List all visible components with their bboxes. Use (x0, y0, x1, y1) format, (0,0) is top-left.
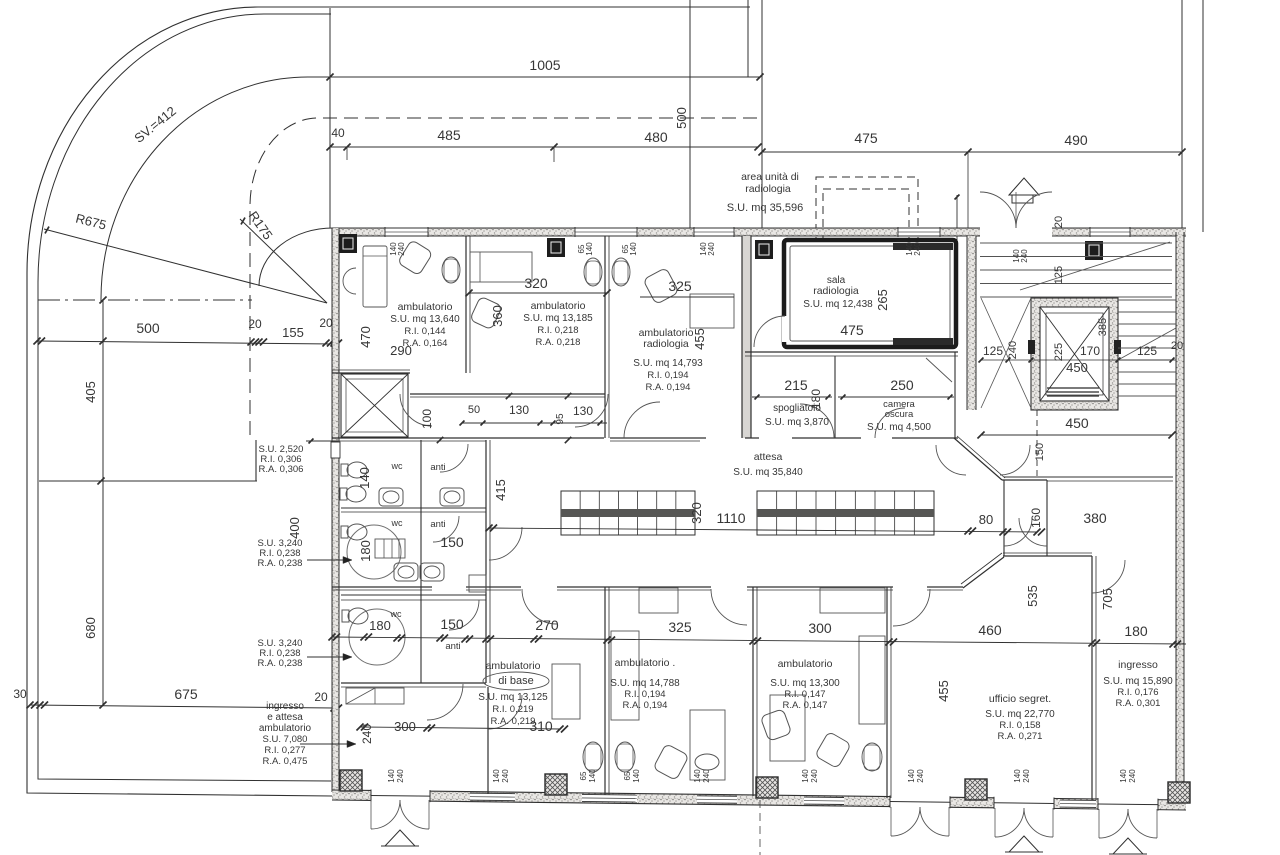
svg-text:65: 65 (623, 771, 632, 780)
svg-text:S.U. mq 14,788: S.U. mq 14,788 (610, 678, 680, 689)
svg-text:spogliatoio: spogliatoio (773, 403, 821, 414)
svg-text:125: 125 (1137, 344, 1157, 358)
svg-text:ambulatorio .: ambulatorio . (615, 657, 676, 669)
svg-text:R.A. 0,475: R.A. 0,475 (263, 756, 308, 767)
svg-text:R.A. 0,271: R.A. 0,271 (998, 731, 1043, 742)
svg-text:R.A. 0,238: R.A. 0,238 (258, 658, 303, 669)
svg-text:455: 455 (692, 328, 707, 350)
svg-text:S.U. mq 35,596: S.U. mq 35,596 (727, 202, 803, 214)
svg-text:S.U. mq 13,640: S.U. mq 13,640 (390, 314, 460, 325)
svg-text:R.A. 0,306: R.A. 0,306 (259, 464, 304, 475)
svg-text:240: 240 (1007, 341, 1019, 359)
svg-text:ambulatorio: ambulatorio (398, 301, 453, 313)
svg-text:475: 475 (840, 322, 864, 338)
svg-text:180: 180 (1124, 623, 1148, 639)
svg-text:ingresso: ingresso (1118, 659, 1158, 671)
svg-text:300: 300 (394, 719, 416, 734)
svg-text:485: 485 (437, 127, 461, 143)
svg-text:S.U. mq 3,870: S.U. mq 3,870 (765, 417, 829, 428)
svg-text:240: 240 (360, 724, 374, 744)
svg-text:R.A. 0,147: R.A. 0,147 (783, 700, 828, 711)
svg-text:S.U. mq 14,793: S.U. mq 14,793 (633, 358, 703, 369)
svg-text:125: 125 (983, 344, 1003, 358)
svg-text:S.U. 7,080: S.U. 7,080 (263, 734, 308, 745)
svg-text:di base: di base (498, 675, 533, 687)
svg-text:20: 20 (1171, 340, 1183, 352)
svg-text:240: 240 (1128, 769, 1137, 783)
svg-text:320: 320 (689, 502, 704, 524)
svg-text:R.I. 0,218: R.I. 0,218 (537, 325, 578, 336)
svg-text:e attesa: e attesa (267, 712, 303, 723)
svg-text:R.A. 0,194: R.A. 0,194 (646, 382, 691, 393)
svg-text:ambulatorio: ambulatorio (778, 658, 833, 670)
svg-text:160: 160 (1029, 508, 1043, 528)
svg-text:400: 400 (287, 517, 302, 539)
svg-text:140: 140 (357, 467, 372, 489)
svg-text:ingresso: ingresso (266, 701, 304, 712)
svg-text:wc: wc (391, 461, 403, 471)
svg-text:180: 180 (369, 618, 391, 633)
svg-text:150: 150 (440, 534, 464, 550)
svg-text:S.U. mq 4,500: S.U. mq 4,500 (867, 422, 931, 433)
svg-text:150: 150 (440, 616, 464, 632)
svg-text:405: 405 (83, 381, 98, 403)
svg-text:270: 270 (535, 617, 559, 633)
svg-text:anti: anti (430, 462, 445, 473)
svg-text:ufficio segret.: ufficio segret. (989, 693, 1051, 705)
svg-text:455: 455 (936, 680, 951, 702)
svg-text:240: 240 (707, 242, 716, 256)
svg-text:325: 325 (668, 278, 692, 294)
svg-text:R.I. 0,147: R.I. 0,147 (784, 689, 825, 700)
svg-text:radiologia: radiologia (813, 285, 859, 297)
svg-text:140: 140 (1013, 769, 1022, 783)
svg-text:R.I. 0,158: R.I. 0,158 (999, 720, 1040, 731)
svg-text:radiologia: radiologia (643, 338, 689, 350)
svg-text:140: 140 (1119, 769, 1128, 783)
svg-text:anti: anti (445, 641, 460, 652)
svg-text:385: 385 (1097, 318, 1109, 336)
svg-text:50: 50 (468, 404, 480, 416)
svg-text:R.I. 0,277: R.I. 0,277 (264, 745, 305, 756)
svg-text:attesa: attesa (754, 451, 783, 463)
svg-text:240: 240 (501, 769, 510, 783)
svg-text:R.A. 0,238: R.A. 0,238 (258, 558, 303, 569)
svg-text:20: 20 (314, 690, 328, 704)
svg-text:R.A. 0,218: R.A. 0,218 (536, 337, 581, 348)
svg-text:705: 705 (1100, 588, 1115, 610)
svg-text:wc: wc (390, 609, 402, 619)
svg-text:680: 680 (83, 617, 98, 639)
svg-text:450: 450 (1066, 360, 1088, 375)
svg-text:65: 65 (579, 771, 588, 780)
svg-text:R.I. 0,176: R.I. 0,176 (1117, 687, 1158, 698)
svg-text:300: 300 (808, 620, 832, 636)
svg-text:R.A. 0,164: R.A. 0,164 (403, 338, 448, 349)
svg-text:140: 140 (492, 769, 501, 783)
svg-text:225: 225 (1053, 343, 1065, 361)
svg-text:140: 140 (629, 242, 638, 256)
svg-text:480: 480 (644, 129, 668, 145)
svg-text:30: 30 (13, 687, 27, 701)
svg-text:R.A. 0,301: R.A. 0,301 (1116, 698, 1161, 709)
svg-text:240: 240 (396, 769, 405, 783)
svg-text:360: 360 (490, 305, 505, 327)
svg-text:125: 125 (1053, 266, 1065, 284)
svg-text:240: 240 (810, 769, 819, 783)
svg-text:535: 535 (1025, 585, 1040, 607)
svg-text:155: 155 (282, 325, 304, 340)
svg-text:140: 140 (585, 242, 594, 256)
svg-text:ambulatorio: ambulatorio (486, 660, 541, 672)
svg-text:wc: wc (391, 518, 403, 528)
svg-text:S.U. mq 13,300: S.U. mq 13,300 (770, 678, 840, 689)
svg-text:area unità di: area unità di (741, 171, 799, 183)
svg-text:radiologia: radiologia (745, 183, 791, 195)
svg-text:20: 20 (248, 317, 262, 331)
svg-text:140: 140 (693, 769, 702, 783)
svg-text:320: 320 (524, 275, 548, 291)
svg-text:ambulatorio: ambulatorio (531, 300, 586, 312)
svg-text:170: 170 (1080, 344, 1100, 358)
svg-text:140: 140 (907, 769, 916, 783)
svg-text:40: 40 (331, 126, 345, 140)
svg-text:240: 240 (1020, 249, 1029, 263)
svg-text:675: 675 (174, 686, 198, 702)
svg-text:1110: 1110 (716, 510, 745, 526)
svg-text:140: 140 (632, 769, 641, 783)
svg-text:ambulatorio: ambulatorio (259, 723, 312, 734)
svg-text:80: 80 (979, 512, 993, 527)
svg-text:S.U. mq 13,125: S.U. mq 13,125 (478, 692, 548, 703)
svg-text:240: 240 (702, 769, 711, 783)
svg-text:470: 470 (358, 326, 373, 348)
svg-text:R.A. 0,194: R.A. 0,194 (623, 700, 668, 711)
svg-text:490: 490 (1064, 132, 1088, 148)
svg-text:500: 500 (136, 320, 160, 336)
svg-text:140: 140 (387, 769, 396, 783)
svg-text:1005: 1005 (529, 57, 560, 73)
svg-text:S.U. mq 15,890: S.U. mq 15,890 (1103, 676, 1173, 687)
svg-text:20: 20 (1053, 216, 1065, 228)
svg-text:240: 240 (397, 242, 406, 256)
svg-text:anti: anti (430, 519, 445, 530)
svg-text:95: 95 (555, 413, 566, 425)
svg-text:500: 500 (674, 107, 689, 129)
svg-text:100: 100 (420, 409, 434, 429)
svg-text:140: 140 (588, 769, 597, 783)
svg-text:130: 130 (573, 404, 593, 418)
svg-text:180: 180 (358, 540, 373, 562)
svg-text:240: 240 (913, 242, 922, 256)
svg-text:oscura: oscura (885, 409, 914, 420)
svg-text:140: 140 (801, 769, 810, 783)
svg-text:460: 460 (978, 622, 1002, 638)
svg-text:R.A. 0,219: R.A. 0,219 (491, 716, 536, 727)
svg-text:S.U. mq 12,438: S.U. mq 12,438 (803, 299, 873, 310)
svg-text:R.I. 0,194: R.I. 0,194 (647, 370, 688, 381)
svg-text:R.I. 0,219: R.I. 0,219 (492, 704, 533, 715)
svg-text:R.I. 0,144: R.I. 0,144 (404, 326, 445, 337)
svg-text:S.U. mq 35,840: S.U. mq 35,840 (733, 467, 803, 478)
svg-text:150: 150 (1034, 443, 1046, 461)
svg-text:250: 250 (890, 377, 914, 393)
svg-text:S.U. mq 22,770: S.U. mq 22,770 (985, 709, 1055, 720)
svg-text:215: 215 (784, 377, 808, 393)
svg-text:20: 20 (319, 316, 333, 330)
svg-text:265: 265 (875, 289, 890, 311)
svg-text:415: 415 (493, 479, 508, 501)
svg-text:R.I. 0,194: R.I. 0,194 (624, 689, 665, 700)
svg-text:325: 325 (668, 619, 692, 635)
svg-text:450: 450 (1065, 415, 1089, 431)
svg-text:130: 130 (509, 403, 529, 417)
svg-text:240: 240 (916, 769, 925, 783)
svg-text:475: 475 (854, 130, 878, 146)
svg-text:240: 240 (1022, 769, 1031, 783)
svg-text:S.U. mq 13,185: S.U. mq 13,185 (523, 313, 593, 324)
svg-text:380: 380 (1083, 510, 1107, 526)
